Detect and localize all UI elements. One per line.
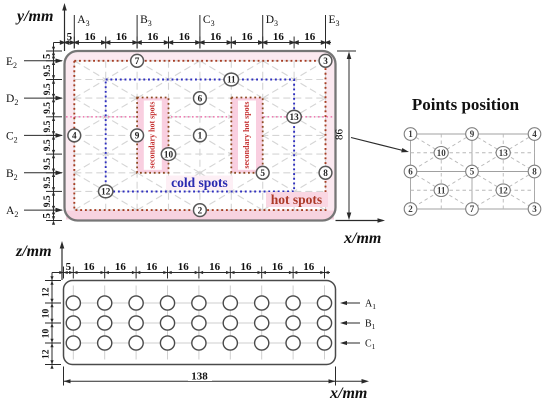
svg-text:secondary hot spots: secondary hot spots <box>148 102 157 169</box>
svg-text:4: 4 <box>532 129 537 139</box>
dimension 86 <box>334 51 357 220</box>
point 13 <box>287 110 301 123</box>
svg-text:16: 16 <box>303 261 315 273</box>
bottom dimension line <box>52 267 330 279</box>
holes <box>66 296 331 350</box>
svg-text:8: 8 <box>532 167 537 177</box>
svg-text:16: 16 <box>272 261 284 273</box>
secondary hot spot region left <box>137 98 168 173</box>
point 7 <box>131 54 144 67</box>
svg-text:5: 5 <box>66 261 72 273</box>
minimap point 12 <box>496 184 510 197</box>
svg-text:16: 16 <box>210 31 222 43</box>
svg-text:9.5: 9.5 <box>43 195 53 207</box>
svg-text:16: 16 <box>179 31 191 43</box>
minimap point 8 <box>528 165 541 178</box>
svg-text:9.5: 9.5 <box>43 64 53 76</box>
svg-text:86: 86 <box>334 129 346 141</box>
minimap point 1 <box>404 128 417 141</box>
minimap point 11 <box>434 184 448 197</box>
z axis <box>60 241 65 280</box>
svg-text:secondary hot spots: secondary hot spots <box>242 102 251 169</box>
svg-text:12: 12 <box>499 185 509 195</box>
minimap point 2 <box>404 203 417 216</box>
svg-text:16: 16 <box>116 31 128 43</box>
minimap point 10 <box>434 147 448 160</box>
minimap point 5 <box>466 165 479 178</box>
point 1 <box>194 129 207 142</box>
bottom left dimension chain <box>45 273 61 369</box>
svg-text:9.5: 9.5 <box>43 120 53 132</box>
svg-text:cold spots: cold spots <box>171 175 228 190</box>
minimap point 7 <box>466 203 479 216</box>
svg-text:16: 16 <box>85 31 97 43</box>
point 11 <box>224 73 238 86</box>
svg-text:10: 10 <box>437 148 447 158</box>
point 10 <box>161 148 175 161</box>
svg-text:10: 10 <box>42 309 52 319</box>
plate body with pink margin band <box>65 51 336 221</box>
arrow to points position <box>351 138 409 153</box>
minimap point 9 <box>466 128 479 141</box>
top dimension line <box>54 37 332 49</box>
svg-text:13: 13 <box>499 148 509 158</box>
bottom dimension numbers <box>66 261 315 273</box>
svg-text:16: 16 <box>147 31 159 43</box>
svg-text:11: 11 <box>227 75 236 85</box>
svg-text:12: 12 <box>42 349 52 359</box>
minimap point 4 <box>528 128 541 141</box>
svg-text:5: 5 <box>470 167 475 177</box>
left dimension numbers 5/9.5 <box>42 54 53 219</box>
svg-text:16: 16 <box>304 31 316 43</box>
svg-text:3: 3 <box>323 56 328 66</box>
svg-text:138: 138 <box>191 371 208 383</box>
svg-text:5: 5 <box>260 168 265 178</box>
svg-text:4: 4 <box>72 131 77 141</box>
svg-text:5: 5 <box>42 54 53 59</box>
svg-text:12: 12 <box>42 287 52 297</box>
plate outline <box>65 51 336 221</box>
svg-text:9.5: 9.5 <box>43 102 53 114</box>
svg-text:9.5: 9.5 <box>43 83 53 95</box>
svg-text:16: 16 <box>115 261 127 273</box>
bottom left numbers 12/10/10/12 <box>42 287 52 359</box>
point 9 <box>131 129 144 142</box>
top dimension numbers <box>67 31 316 43</box>
svg-text:y/mm: y/mm <box>15 8 53 25</box>
svg-text:7: 7 <box>135 56 140 66</box>
svg-text:11: 11 <box>437 185 446 195</box>
svg-text:x/mm: x/mm <box>343 230 381 247</box>
svg-text:1: 1 <box>408 129 413 139</box>
svg-text:16: 16 <box>209 261 221 273</box>
svg-text:2: 2 <box>408 204 413 214</box>
svg-text:6: 6 <box>408 167 413 177</box>
svg-text:16: 16 <box>178 261 190 273</box>
pink dotted line row C half <box>66 116 334 118</box>
svg-text:10: 10 <box>42 329 52 339</box>
svg-text:5: 5 <box>42 213 53 218</box>
svg-text:5: 5 <box>67 31 73 43</box>
minimap grid <box>411 134 535 209</box>
svg-text:16: 16 <box>273 31 285 43</box>
point 2 <box>194 204 207 217</box>
point 5 <box>256 166 269 179</box>
svg-text:16: 16 <box>241 261 253 273</box>
svg-text:9: 9 <box>470 129 475 139</box>
dimension 138 and x axis <box>64 367 370 386</box>
svg-text:8: 8 <box>323 168 328 178</box>
gray mesh lines <box>74 61 325 210</box>
svg-text:9.5: 9.5 <box>43 158 53 170</box>
column labels A3-E3 <box>74 14 339 49</box>
row labels E2-A2 with arrows <box>6 56 63 219</box>
point 8 <box>319 166 332 179</box>
svg-text:9.5: 9.5 <box>43 176 53 188</box>
secondary hot spot region right <box>231 98 262 173</box>
svg-text:13: 13 <box>290 112 300 122</box>
hot spots label <box>266 192 328 207</box>
cold spots label <box>166 175 233 190</box>
bottom gray guide lines <box>68 286 332 360</box>
minimap point 13 <box>496 147 510 160</box>
svg-text:9: 9 <box>135 131 140 141</box>
svg-text:6: 6 <box>198 93 203 103</box>
svg-text:hot spots: hot spots <box>271 192 322 207</box>
bottom plate outline <box>64 281 336 365</box>
svg-text:16: 16 <box>146 261 158 273</box>
svg-text:10: 10 <box>164 149 174 159</box>
svg-text:z/mm: z/mm <box>15 243 52 260</box>
svg-text:16: 16 <box>242 31 254 43</box>
row labels A1-C1 <box>340 299 376 352</box>
svg-text:16: 16 <box>84 261 96 273</box>
minimap point 3 <box>528 203 541 216</box>
y axis <box>62 3 67 51</box>
svg-text:12: 12 <box>101 187 111 197</box>
point 3 <box>319 54 332 67</box>
point 12 <box>99 185 113 198</box>
minimap point 6 <box>404 165 417 178</box>
svg-text:2: 2 <box>198 205 203 215</box>
svg-text:7: 7 <box>470 204 475 214</box>
svg-text:9.5: 9.5 <box>43 139 53 151</box>
left dimension line <box>46 43 62 225</box>
svg-text:3: 3 <box>532 204 537 214</box>
hot spots red dotted rectangle <box>74 61 325 210</box>
svg-text:Points position: Points position <box>412 95 520 114</box>
svg-text:1: 1 <box>198 131 203 141</box>
cold spots blue dotted rectangle <box>106 80 294 192</box>
svg-text:x/mm: x/mm <box>329 385 367 402</box>
point 4 <box>68 129 81 142</box>
point 6 <box>194 92 207 105</box>
x axis top diagram <box>336 218 386 223</box>
